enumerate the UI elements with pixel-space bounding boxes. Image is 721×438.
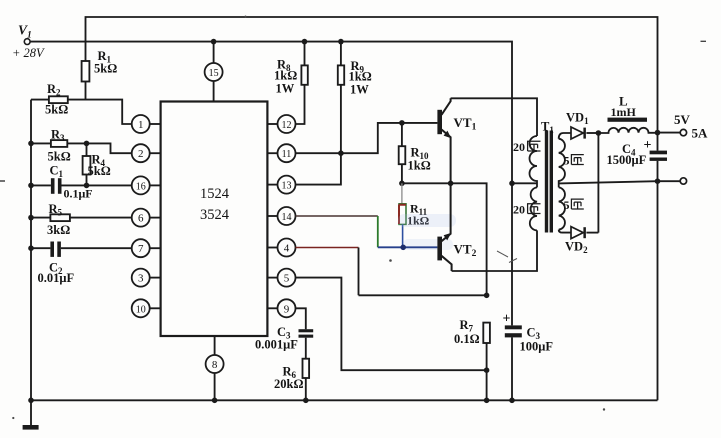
transformer T1 secondary lower winding 5 turns [559,187,565,229]
pin 2 [132,144,161,162]
svg-text:16: 16 [136,181,146,192]
svg-text:20kΩ: 20kΩ [274,377,303,391]
pin 6 [132,209,161,227]
terminal V1 input [24,39,30,45]
junction dot R4 bottom [84,183,90,189]
svg-text:VT2: VT2 [454,242,477,260]
pin 12 [267,115,295,133]
resistor R2 [31,96,86,103]
junction dot R8 top [302,39,308,45]
svg-text:0.1Ω: 0.1Ω [454,332,480,346]
svg-text:5kΩ: 5kΩ [94,62,117,76]
svg-text:3524: 3524 [200,207,230,223]
capacitor C3 100uF electrolytic [505,183,522,400]
scan artifact left edge tick [0,41,706,181]
pin 3 [132,269,161,287]
junction dot R3/R4 node [84,141,90,147]
pin 7 [132,239,161,257]
svg-text:14: 14 [282,212,292,223]
svg-text:+ 28V: + 28V [12,46,45,60]
pin 4 [267,239,295,257]
svg-text:20: 20 [513,203,525,217]
label winding 20 turns upper [513,140,541,154]
svg-text:0.1μF: 0.1μF [64,187,93,201]
scan artifact specks [12,16,605,420]
pin 9 [267,299,295,317]
svg-text:+: + [503,312,511,327]
diode VD2 [571,227,598,239]
wire 5V output to terminal [658,132,681,134]
resistor R11 [399,183,406,247]
resistor R8 [296,42,308,124]
svg-text:5: 5 [564,154,570,168]
svg-text:VD2: VD2 [565,240,588,256]
junction dot VT1/VT2 emitters [448,181,454,187]
svg-text:8: 8 [212,359,218,371]
pin 11 [267,144,295,162]
pin 14 [267,207,295,225]
pin 16 [132,176,161,194]
svg-text:7: 7 [138,243,144,255]
blue scan smudge near R11 [398,214,456,227]
junction dot pin11/R9/pin13 node [338,150,344,156]
wire 5V remote-sense line (top) [86,17,658,133]
svg-text:1kΩ: 1kΩ [349,70,372,84]
left ground rail [30,100,32,426]
svg-text:3kΩ: 3kΩ [47,223,70,237]
svg-text:1mH: 1mH [611,105,637,119]
label winding 20 turns lower [513,203,541,217]
junction dot left rail R3 [28,141,34,147]
capacitor C3b 0.001uF [299,329,314,359]
wire VT2 collector to T1 primary bottom [452,230,537,271]
transformer T1 core [545,131,553,233]
wire R3/R4 node to pin 2 [87,143,132,153]
pin 8 [206,336,224,400]
transformer T1 primary upper winding 20 turns [530,136,537,187]
capacitor C4 electrolytic [650,133,667,182]
scan artifact scratch [497,251,517,263]
junction dot transformer center tap [509,181,515,187]
resistor R9 [338,42,344,154]
wire VD2 cathode up to VD1 cathode node [597,133,599,233]
resistor R6 [303,359,310,401]
terminal 5V output [680,129,686,135]
transformer T1 secondary upper winding 5 turns [559,139,565,188]
wire VT1 collector to T1 primary top [451,98,537,136]
IC U1 1524/3524 [161,102,268,337]
junction dot R6 ground [303,398,309,404]
resistor R4 [83,143,91,185]
svg-text:100μF: 100μF [520,340,554,354]
junction dot R7 ground [484,398,490,404]
svg-text:1524: 1524 [200,186,230,202]
svg-text:+: + [644,138,652,153]
wire R2/R1 node to pin 1 [86,100,132,124]
wire pin 13 to R9 bottom [296,153,341,184]
junction dot left rail C2 [28,245,34,251]
junction dot left rail R5 [28,215,34,221]
junction dot R10 top [399,120,405,126]
svg-text:5kΩ: 5kΩ [45,103,68,117]
resistor R3 [31,140,87,147]
wire pin 9 to C3b [296,308,306,329]
svg-text:1W: 1W [276,82,295,96]
svg-text:C1: C1 [50,164,64,180]
svg-text:10: 10 [136,304,146,315]
junction dot 0V output node [655,178,661,184]
wire C1/R4 node to pin 16 [87,184,132,186]
svg-text:12: 12 [282,120,292,131]
resistor R5 [31,214,132,221]
junction dot 5V output node [655,130,661,136]
svg-text:R5: R5 [49,202,63,218]
label winding 5 turns upper [564,154,584,168]
svg-text:9: 9 [284,303,290,315]
wire pin 5 to R7 bottom [296,278,487,371]
svg-text:5V: 5V [674,112,691,127]
pin 10 [132,299,161,317]
junction dot left rail bottom [28,398,34,404]
wire pin 11 to R10 top and VT1 base [296,123,438,153]
resistor R1 [82,61,90,100]
svg-text:5A: 5A [692,126,709,141]
svg-text:2: 2 [138,148,144,160]
bottom ground rail [31,399,658,401]
svg-text:R3: R3 [51,128,65,144]
pin 13 [267,176,295,194]
transistor VT2 [437,183,451,271]
svg-text:15: 15 [209,68,219,79]
junction dot R11 bottom [400,245,406,251]
svg-text:T1: T1 [541,120,554,136]
capacitor C1 [31,178,87,194]
svg-text:11: 11 [282,149,292,160]
svg-text:V1: V1 [18,23,32,41]
resistor R10 [399,123,406,183]
blue scan smudge near VT2 base [403,239,453,250]
diode VD1 [571,127,598,139]
inductor L [598,118,657,133]
label winding 5 turns lower [564,198,584,212]
wire center tap to primary [512,182,537,184]
wire pin 14 to VT2 base (colored scan) [296,216,438,247]
pin 1 [132,115,161,133]
svg-text:R2: R2 [47,82,61,98]
resistor R7 [483,323,490,401]
svg-text:1W: 1W [350,83,369,97]
wire emitter rail R10 bottom to R7 [402,183,487,295]
wire secondary bottom to VD2 anode [559,230,571,233]
junction dot R10 bottom [399,181,405,187]
pin 5 [267,269,295,287]
wire secondary center tap 0V line [559,181,658,183]
svg-text:5kΩ: 5kΩ [88,164,111,178]
svg-text:1: 1 [138,119,144,131]
transformer T1 primary lower winding 20 turns [530,187,537,230]
junction dot rectifier output [596,130,602,136]
wire 0V output to terminal [658,180,681,182]
junction dot C3 ground [509,398,515,404]
wire +28V rail from V1 terminal to transformer center-tap feed [30,42,512,184]
svg-text:20: 20 [513,140,525,154]
svg-text:1500μF: 1500μF [607,153,647,167]
svg-text:VT1: VT1 [454,115,477,133]
svg-text:6: 6 [138,213,144,225]
svg-text:13: 13 [282,181,292,192]
transistor VT1 [437,98,451,183]
junction dot left rail C1 [28,183,34,189]
svg-text:5kΩ: 5kΩ [48,150,71,164]
svg-text:VD1: VD1 [566,111,589,127]
junction dot R7 bottom [484,367,490,373]
svg-text:5: 5 [284,273,290,285]
svg-text:3: 3 [138,273,144,285]
capacitor C2 [31,242,132,257]
junction dot pin8 ground [212,398,218,404]
svg-text:0.001μF: 0.001μF [255,338,298,352]
svg-text:0.01μF: 0.01μF [38,271,75,285]
junction dot R7 top [484,293,490,299]
junction dot pin15 feed [211,39,217,45]
svg-text:5: 5 [564,198,570,212]
svg-text:1kΩ: 1kΩ [408,159,431,173]
junction dot R9 top [338,39,344,45]
ground symbol [23,425,39,430]
svg-text:4: 4 [284,243,290,255]
wire pin 4 to R7 top (dark red scan) [296,248,487,296]
wire secondary top to VD1 anode [559,133,571,139]
terminal 0V output [680,178,686,184]
right rail 0V down to ground [657,181,659,400]
svg-text:1kΩ: 1kΩ [274,69,297,83]
pin 15 [205,42,223,102]
